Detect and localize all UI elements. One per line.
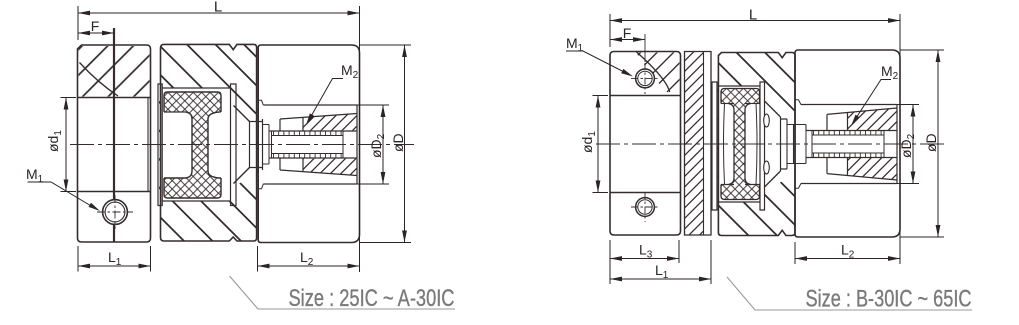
- right-drawing bore edges: [806, 131, 884, 158]
- right-spider top flange outline: [721, 89, 760, 104]
- collet front steps: [263, 125, 270, 165]
- right-drawing cavity top line: [719, 85, 760, 87]
- dimension phi-D2 right: [897, 104, 919, 106]
- extension line left: [77, 6, 79, 40]
- right-drawing cavity bottom line: [719, 201, 760, 203]
- right-drawing collet bore bottom line: [806, 157, 897, 159]
- extension line left right-drawing: [609, 14, 611, 47]
- svg-text:F: F: [623, 25, 632, 41]
- right-drawing bore serration top: [812, 134, 884, 136]
- caption leader line left: [230, 276, 456, 309]
- jaw pin bump lower: [764, 161, 770, 174]
- spider web cross-hatch with flares: [186, 112, 219, 178]
- right-spider top flange inner line: [721, 103, 734, 105]
- right-spider bottom flange outline: [721, 185, 760, 200]
- screw bottom hole inner circle: [638, 200, 652, 214]
- right-drawing sleeve cavity bottom line: [801, 183, 897, 185]
- dimension phi-D right: [900, 49, 944, 51]
- sleeve cavity mouth steps: [258, 100, 263, 189]
- left retaining plate: [158, 84, 162, 206]
- spider bottom flange outline: [164, 178, 221, 198]
- right hub jaw slant lower: [234, 168, 250, 184]
- dimension phi-D: [360, 44, 412, 46]
- right retaining plate: [231, 84, 237, 206]
- right-drawing collet wedge lower hatch: [848, 158, 898, 180]
- right-drawing bore serration ticks: [814, 131, 882, 157]
- collet wedge lower hatch: [303, 159, 357, 176]
- right-drawing collet bore top line: [806, 130, 897, 132]
- right-drawing sleeve outline: [795, 50, 900, 237]
- extension line right tall right-drawing: [899, 14, 901, 264]
- spider bottom flange cross-hatch: [164, 178, 221, 198]
- dimension L3: [609, 240, 611, 284]
- svg-text:L: L: [749, 7, 757, 24]
- right-drawing middle block hatch: [717, 53, 795, 236]
- right-spider flange side lines: [724, 104, 758, 185]
- hub flange hatch: [685, 52, 704, 236]
- left hub bore line bottom: [78, 191, 151, 193]
- screw centerline to F dim: [644, 34, 646, 62]
- screw M1 crosshair: [97, 211, 133, 213]
- spider cavity top line: [162, 87, 231, 89]
- right-drawing middle block outline: [718, 53, 795, 236]
- dimension phi-d1 right: [597, 96, 599, 193]
- right-drawing left plate: [712, 82, 717, 210]
- collet bore front edge: [269, 131, 343, 158]
- hub flange inner line: [703, 52, 705, 236]
- right-spider bottom flange cross-hatch: [721, 185, 760, 200]
- dimension L line right: [610, 20, 900, 22]
- right-drawing hub top hatch right of chamfer arc: [636, 53, 680, 95]
- svg-text:øD: øD: [923, 133, 939, 152]
- extension line right tall: [359, 6, 361, 272]
- right hub jaw slant upper: [234, 106, 250, 122]
- screw M1 top hole outer circle: [636, 69, 655, 88]
- dimension L1: [77, 246, 79, 272]
- svg-text:Size : B-30IC ~ 65IC: Size : B-30IC ~ 65IC: [806, 286, 972, 313]
- right jaw slant lower: [765, 171, 781, 187]
- collet wedge lower outline: [280, 159, 357, 176]
- hub flange outline: [685, 52, 712, 236]
- right-drawing collet wedge upper outline: [827, 108, 897, 131]
- right-drawing hub bore bottom line: [610, 192, 681, 194]
- right jaw neck: [780, 117, 782, 171]
- dimension phi-D2: [357, 104, 389, 106]
- right-drawing collet wedge upper hatch: [848, 108, 898, 130]
- screw M1 hole inner circle: [105, 202, 125, 222]
- spider top flange inner line: [164, 111, 186, 113]
- dimension phi-d1: [65, 98, 67, 192]
- spider top flange cross-hatch: [164, 92, 221, 112]
- collet wedge upper hatch: [303, 114, 357, 131]
- right-drawing hub bore top line: [610, 95, 681, 97]
- dimension L2 right: [794, 242, 796, 264]
- right-drawing sleeve cavity mouth steps: [795, 100, 801, 188]
- left hub clamp slit line (F extension): [113, 28, 115, 242]
- left hub chamfer arc: [80, 63, 119, 97]
- screw bottom hole outer circle: [636, 198, 655, 217]
- dimension L1 right: [710, 240, 712, 284]
- centerline right drawing: [596, 143, 946, 145]
- svg-text:F: F: [91, 18, 100, 34]
- collet bore top line: [269, 130, 357, 132]
- collet bore bottom line: [269, 157, 357, 159]
- middle flange block outline: [161, 44, 257, 241]
- collet wedge upper outline: [280, 114, 357, 131]
- caption leader line right: [727, 277, 972, 310]
- screw M1 top hole inner circle: [638, 71, 652, 85]
- left hub outer outline: [78, 45, 151, 242]
- right-drawing bore serration bottom: [812, 152, 884, 154]
- collet bore serration ticks: [274, 132, 342, 158]
- screw M1 top crosshair: [631, 77, 659, 79]
- jaw pin bump upper: [764, 114, 770, 127]
- right jaw slant upper: [765, 101, 781, 117]
- right-spider web outline: [729, 104, 751, 185]
- right-drawing hub outer outline: [610, 52, 681, 236]
- right-drawing right plate: [760, 82, 765, 210]
- screw bottom crosshair: [631, 206, 659, 208]
- collet bore serration top: [272, 135, 344, 137]
- shaft end piece: [787, 119, 806, 169]
- right-spider top flange cross-hatch: [721, 89, 760, 104]
- collet bore serration bottom: [272, 153, 344, 155]
- middle flange block hatch: [159, 44, 258, 241]
- left hub bore line top: [78, 97, 151, 99]
- svg-text:L: L: [214, 0, 222, 16]
- sleeve cavity top line: [263, 104, 357, 106]
- sleeve inner wall: [356, 105, 358, 184]
- svg-text:øD: øD: [390, 133, 406, 152]
- spider cavity bottom line: [162, 200, 231, 202]
- dimension F line right: [610, 39, 645, 41]
- right-drawing sleeve cavity top line: [801, 104, 897, 106]
- right sleeve outline: [258, 45, 359, 243]
- dimension L line: [78, 12, 360, 14]
- right hub jaw neck: [250, 119, 263, 170]
- spider web outline: [186, 112, 219, 178]
- centerline left drawing: [70, 144, 414, 146]
- sleeve cavity bottom line: [263, 183, 357, 185]
- svg-text:Size : 25IC ~ A-30IC: Size : 25IC ~ A-30IC: [289, 285, 455, 312]
- left hub face inner line: [147, 98, 149, 192]
- dimension L2: [257, 246, 259, 272]
- dimension F line: [78, 32, 114, 34]
- left hub top section hatch: [79, 46, 150, 97]
- right-drawing collet wedge lower outline: [827, 158, 897, 181]
- right-drawing sleeve inner wall: [896, 105, 898, 184]
- right-drawing hub chamfer arc: [636, 52, 670, 93]
- spider top flange outline: [164, 92, 221, 112]
- jaw horizontal lines: [781, 119, 788, 169]
- right-spider web cross-hatch: [729, 104, 751, 185]
- screw M1 hole outer circle: [103, 200, 128, 225]
